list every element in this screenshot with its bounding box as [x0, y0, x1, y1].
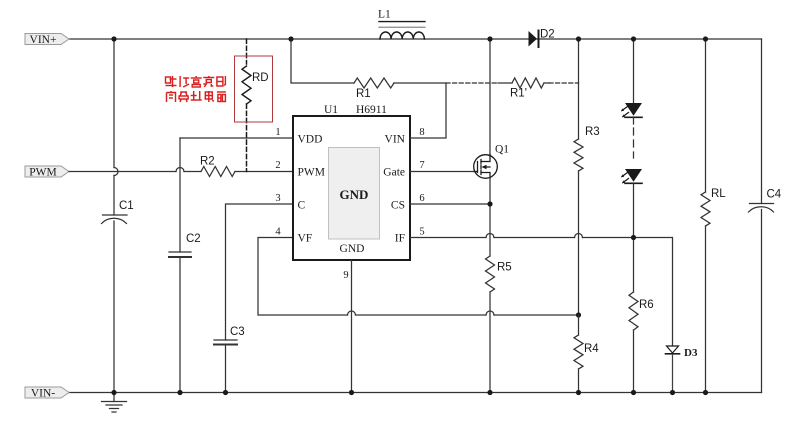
- svg-text:R4: R4: [584, 343, 599, 355]
- pin number 7: [419, 160, 424, 171]
- pin PWM: [298, 167, 325, 179]
- capacitor C2: [169, 233, 201, 257]
- svg-text:R3: R3: [585, 126, 600, 138]
- U1 inner GND pad: [329, 148, 380, 240]
- pin VIN: [385, 134, 406, 146]
- pin VF: [298, 233, 313, 245]
- svg-text:R5: R5: [497, 262, 512, 274]
- pin number 5: [419, 227, 424, 238]
- RD red annotation box: [235, 56, 273, 122]
- junction divider node: [576, 312, 581, 317]
- wire dashed R1 to R1p: [446, 82, 498, 84]
- junction ground rail x=225.5: [223, 390, 228, 395]
- capacitor C4: [749, 39, 782, 393]
- op-amp U1 H6911 IC body: [293, 116, 410, 260]
- wire Q1 drain from top rail: [489, 39, 491, 155]
- wire VF pin4 to divider node: [258, 238, 579, 316]
- wire C1 branch vertical: [114, 39, 118, 393]
- svg-text:C: C: [298, 200, 306, 212]
- svg-text:VF: VF: [298, 233, 313, 245]
- svg-text:VIN+: VIN+: [30, 34, 57, 46]
- capacitor C3: [214, 326, 245, 345]
- junction ground rail x=351.5: [349, 390, 354, 395]
- wire R5 to ground: [489, 292, 491, 393]
- svg-text:PWM: PWM: [29, 167, 56, 179]
- pin number 3: [275, 193, 280, 204]
- LED D-led2: [621, 169, 642, 183]
- svg-text:4: 4: [275, 227, 281, 238]
- wire R3 to divider node: [578, 171, 580, 315]
- diode D3 zener: [666, 346, 698, 393]
- resistor R6: [629, 292, 654, 393]
- svg-text:R2: R2: [200, 156, 215, 168]
- junction LED-IF node: [631, 235, 636, 240]
- wire LED to IF node: [633, 183, 635, 292]
- node VIN+ port flag: [25, 34, 69, 47]
- svg-text:8: 8: [419, 127, 424, 138]
- junction top rail x=291: [288, 36, 293, 41]
- wire dashed LED gap: [633, 117, 635, 158]
- resistor R1: [354, 78, 394, 100]
- svg-text:Gate: Gate: [383, 167, 405, 179]
- junction top rail x=114: [111, 36, 116, 41]
- junction ground rail x=705.5: [703, 390, 708, 395]
- wire dashed R1p to output node: [549, 82, 579, 84]
- resistor R4: [574, 315, 599, 393]
- svg-text:L1: L1: [378, 9, 391, 21]
- svg-text:7: 7: [419, 160, 424, 171]
- wire PWM line with R2: [69, 167, 293, 177]
- svg-text:GND: GND: [340, 187, 369, 202]
- junction top rail x=633.5: [631, 36, 636, 41]
- resistor R1': [498, 78, 549, 100]
- wire R1 left drop: [291, 39, 354, 83]
- U1 designator: [324, 104, 338, 116]
- pin Gate: [383, 167, 405, 179]
- svg-text:IF: IF: [395, 233, 405, 245]
- svg-text:1: 1: [275, 127, 280, 138]
- svg-text:R6: R6: [639, 299, 654, 311]
- wire LED branch top: [633, 39, 635, 104]
- svg-text:3: 3: [275, 193, 280, 204]
- svg-text:RL: RL: [711, 188, 726, 200]
- svg-text:R1: R1: [356, 88, 371, 100]
- wire Q1 source to R5: [489, 178, 491, 256]
- junction top rail x=490: [487, 36, 492, 41]
- inductor L1: [378, 9, 425, 40]
- node PWM port flag: [25, 166, 69, 179]
- svg-text:U1: U1: [324, 104, 338, 116]
- node VIN- port flag: [25, 387, 69, 400]
- pin number 9: [343, 270, 348, 281]
- svg-text:H6911: H6911: [356, 104, 387, 116]
- wire CS pin6: [410, 203, 490, 205]
- wire R3 branch top: [578, 39, 580, 139]
- resistor R3: [574, 126, 600, 171]
- wire VIN+ top rail: [69, 38, 762, 40]
- svg-text:CS: CS: [391, 200, 405, 212]
- label red annotation 默认高亮时 / 应装此电阻: [166, 76, 226, 102]
- junction top rail x=705.5: [703, 36, 708, 41]
- transistor Q1 MOSFET: [474, 144, 510, 179]
- wire C pin3 to C3 branch: [226, 204, 294, 393]
- svg-text:C1: C1: [119, 200, 134, 212]
- svg-text:RD: RD: [252, 72, 269, 84]
- junction ground rail x=490: [487, 390, 492, 395]
- pin number 1: [275, 127, 280, 138]
- capacitor C1: [102, 200, 134, 224]
- resistor R5: [486, 256, 512, 292]
- svg-text:PWM: PWM: [298, 167, 325, 179]
- wire VDD pin1 to C2 branch: [180, 138, 293, 393]
- svg-text:VIN-: VIN-: [31, 388, 55, 400]
- junction ground rail x=114: [111, 390, 116, 395]
- svg-text:VDD: VDD: [298, 134, 323, 146]
- pin IF: [395, 233, 405, 245]
- U1 bottom GND label: [340, 243, 365, 255]
- wire IF pin5: [410, 234, 673, 346]
- svg-text:C2: C2: [186, 233, 201, 245]
- svg-text:VIN: VIN: [385, 134, 406, 146]
- resistor RL load: [701, 39, 726, 393]
- pin VDD: [298, 134, 323, 146]
- junction CS-source: [487, 201, 492, 206]
- svg-text:2: 2: [275, 160, 280, 171]
- svg-text:R1': R1': [510, 88, 527, 100]
- junction ground rail x=633.5: [631, 390, 636, 395]
- wire VIN- ground rail: [69, 392, 762, 394]
- pin number 2: [275, 160, 280, 171]
- pin number 6: [419, 193, 424, 204]
- svg-text:C3: C3: [230, 326, 245, 338]
- ground earth symbol: [102, 393, 127, 413]
- LED D-led1: [621, 103, 642, 117]
- junction top rail x=578.5: [576, 36, 581, 41]
- wire GND pin9: [351, 260, 353, 393]
- svg-text:GND: GND: [340, 243, 365, 255]
- svg-text:D2: D2: [540, 29, 555, 41]
- junction ground rail x=672.5: [670, 390, 675, 395]
- resistor RD dashed branch: [242, 39, 269, 172]
- svg-text:6: 6: [419, 193, 424, 204]
- svg-text:C4: C4: [767, 189, 782, 201]
- pin C: [298, 200, 306, 212]
- U1 part number H6911: [356, 104, 387, 116]
- svg-text:D3: D3: [684, 347, 698, 359]
- pin number 8: [419, 127, 424, 138]
- svg-text:Q1: Q1: [495, 144, 509, 156]
- pin number 4: [275, 227, 281, 238]
- svg-text:5: 5: [419, 227, 424, 238]
- wire R1 to pin8: [394, 83, 446, 138]
- junction ground rail x=180: [177, 390, 182, 395]
- junction ground rail x=578.5: [576, 390, 581, 395]
- resistor R2 label: [200, 156, 215, 168]
- diode D2: [529, 29, 555, 48]
- svg-text:9: 9: [343, 270, 348, 281]
- pin CS: [391, 200, 405, 212]
- wire Gate pin7: [410, 171, 474, 173]
